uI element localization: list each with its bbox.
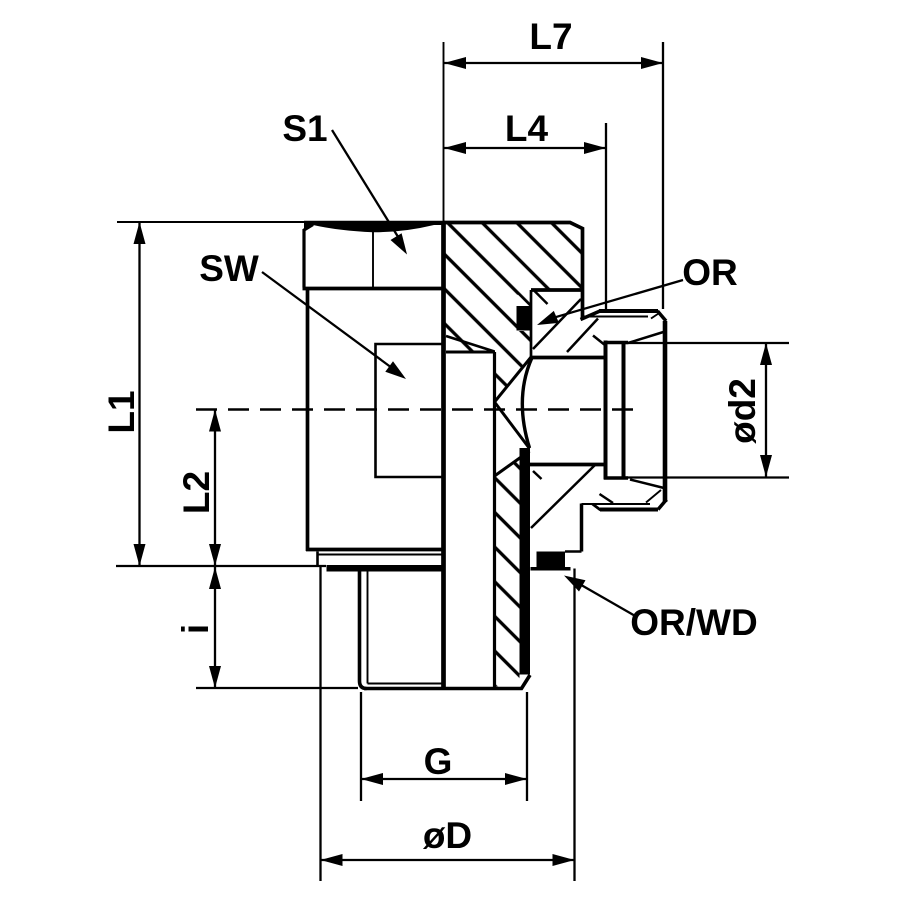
i dimension line: [214, 567, 216, 688]
L1/L2 bottom extension: [116, 565, 326, 567]
svg-text:S1: S1: [282, 108, 327, 149]
vertical bore wall: [493, 352, 496, 688]
S1 leader: [332, 130, 400, 240]
L7 left extension above part: [443, 42, 445, 222]
thread inner bottom line: [368, 683, 444, 685]
hex nut S1 left edge: [304, 225, 313, 288]
bore junction chamfer: [495, 451, 530, 476]
collar top chamfer right: [658, 311, 667, 321]
cone flank upper: [495, 357, 532, 403]
tube stub top edge: [604, 341, 628, 344]
hex flat line bottom 1: [531, 464, 596, 528]
collar bottom face: [600, 508, 658, 512]
washer left edge: [316, 552, 319, 567]
arrowheads: [134, 57, 773, 866]
oD extensions: [321, 567, 575, 881]
L7 dimension line: [444, 62, 663, 64]
tube stub bottom edge: [604, 476, 628, 479]
L1 arrows: [134, 222, 146, 244]
washer bottom right shoulder: [531, 567, 571, 571]
hex flat line bottom 2: [600, 494, 614, 503]
svg-text:L7: L7: [529, 16, 572, 57]
washer top line: [318, 554, 444, 556]
o-ring groove wall: [530, 290, 533, 358]
section block top: [443, 223, 583, 320]
od2 extensions: [625, 343, 789, 478]
SW leader: [262, 272, 392, 368]
concave seat arc: [522, 358, 532, 449]
hex nut S1 flat division: [372, 231, 374, 288]
thread solid bar right: [520, 448, 531, 675]
svg-text:SW: SW: [199, 248, 259, 289]
L4 right extension: [605, 123, 607, 309]
thread shoulder black band: [327, 565, 444, 572]
wire: [117, 42, 667, 690]
collar right face: [663, 321, 668, 502]
collar bottom chamfer left: [593, 504, 601, 510]
dimension lines: [116, 42, 789, 881]
hex corner chamfer top: [535, 291, 548, 304]
od2 dimension line: [765, 343, 767, 477]
svg-text:i: i: [175, 624, 216, 634]
collar top chamfer left: [581, 311, 601, 320]
collar top chamfer ring line: [582, 313, 660, 319]
collar top face: [599, 309, 658, 313]
tube stub left edge: [604, 341, 608, 480]
svg-text:ød2: ød2: [722, 378, 763, 444]
L2 arrows: [209, 410, 221, 432]
L4 arrows: [444, 142, 466, 154]
svg-text:L2: L2: [176, 471, 217, 514]
OR/WD leader arrowhead: [564, 576, 586, 592]
leader lines: [262, 130, 683, 617]
hex flat line top 4: [593, 336, 606, 346]
centerline: [196, 408, 643, 410]
body left edge: [306, 289, 310, 552]
OR leader: [552, 280, 683, 318]
od2 arrows: [760, 343, 772, 365]
cone flank lower: [495, 402, 530, 449]
hex flat line bottom 3: [630, 480, 664, 489]
svg-text:OR/WD: OR/WD: [630, 602, 757, 643]
L7 right extension: [662, 42, 664, 309]
thread crest left: [367, 572, 369, 684]
oD arrows: [321, 854, 343, 866]
G arrows: [361, 773, 383, 785]
hex flat line top 3: [628, 332, 665, 344]
L2 dimension line: [214, 410, 216, 567]
OR/WD leader: [576, 582, 637, 617]
staircase vertical: [580, 504, 584, 552]
svg-text:øD: øD: [423, 815, 472, 856]
node top extension line y=222: [117, 221, 443, 223]
port shoulder upper: [531, 356, 605, 360]
svg-text:OR: OR: [682, 252, 738, 293]
section block bottom step: [531, 288, 583, 292]
hex nut S1 top blob: [304, 221, 445, 232]
svg-text:G: G: [424, 741, 453, 782]
counterbore chamfer: [446, 336, 495, 352]
hex nut S1 bottom: [303, 287, 446, 291]
main vertical centerline edge x=443.5: [441, 222, 446, 690]
hatched section: upper body block: [443, 222, 583, 402]
G dimension line: [361, 778, 527, 780]
collar bottom chamfer right: [658, 500, 667, 510]
stud bottom edge: [364, 675, 530, 689]
collar bottom ring line: [582, 490, 662, 504]
thread outer left: [360, 572, 367, 689]
L4 dimension line: [444, 147, 606, 149]
body bottom: [306, 548, 444, 552]
hatched section: lower stud wall band: [495, 459, 520, 687]
L7 arrows: [444, 57, 466, 69]
port shoulder lower: [530, 463, 605, 467]
svg-text:L1: L1: [101, 390, 142, 433]
SW leader arrowhead: [385, 361, 406, 379]
SW boss rectangle: [376, 344, 444, 477]
o-ring OR (black): [517, 306, 531, 331]
OR leader arrowhead: [537, 311, 559, 325]
tube stub inner line: [622, 343, 626, 478]
svg-text:L4: L4: [505, 108, 549, 149]
hex corner chamfer bottom: [533, 471, 542, 479]
i bottom extension: [196, 687, 358, 689]
counterbore floor: [446, 351, 495, 354]
G extensions: [361, 692, 527, 801]
i arrows: [209, 567, 221, 589]
o-ring OR/WD (black): [537, 552, 566, 569]
oD dimension line: [321, 859, 575, 861]
S1 leader arrowhead: [391, 233, 408, 254]
hex flat line top 2: [533, 299, 581, 349]
hex flat line top 1: [567, 319, 598, 353]
washer top line right: [565, 550, 582, 553]
L1 dimension line: [138, 222, 140, 566]
o-ring groove chamfer: [519, 294, 532, 307]
